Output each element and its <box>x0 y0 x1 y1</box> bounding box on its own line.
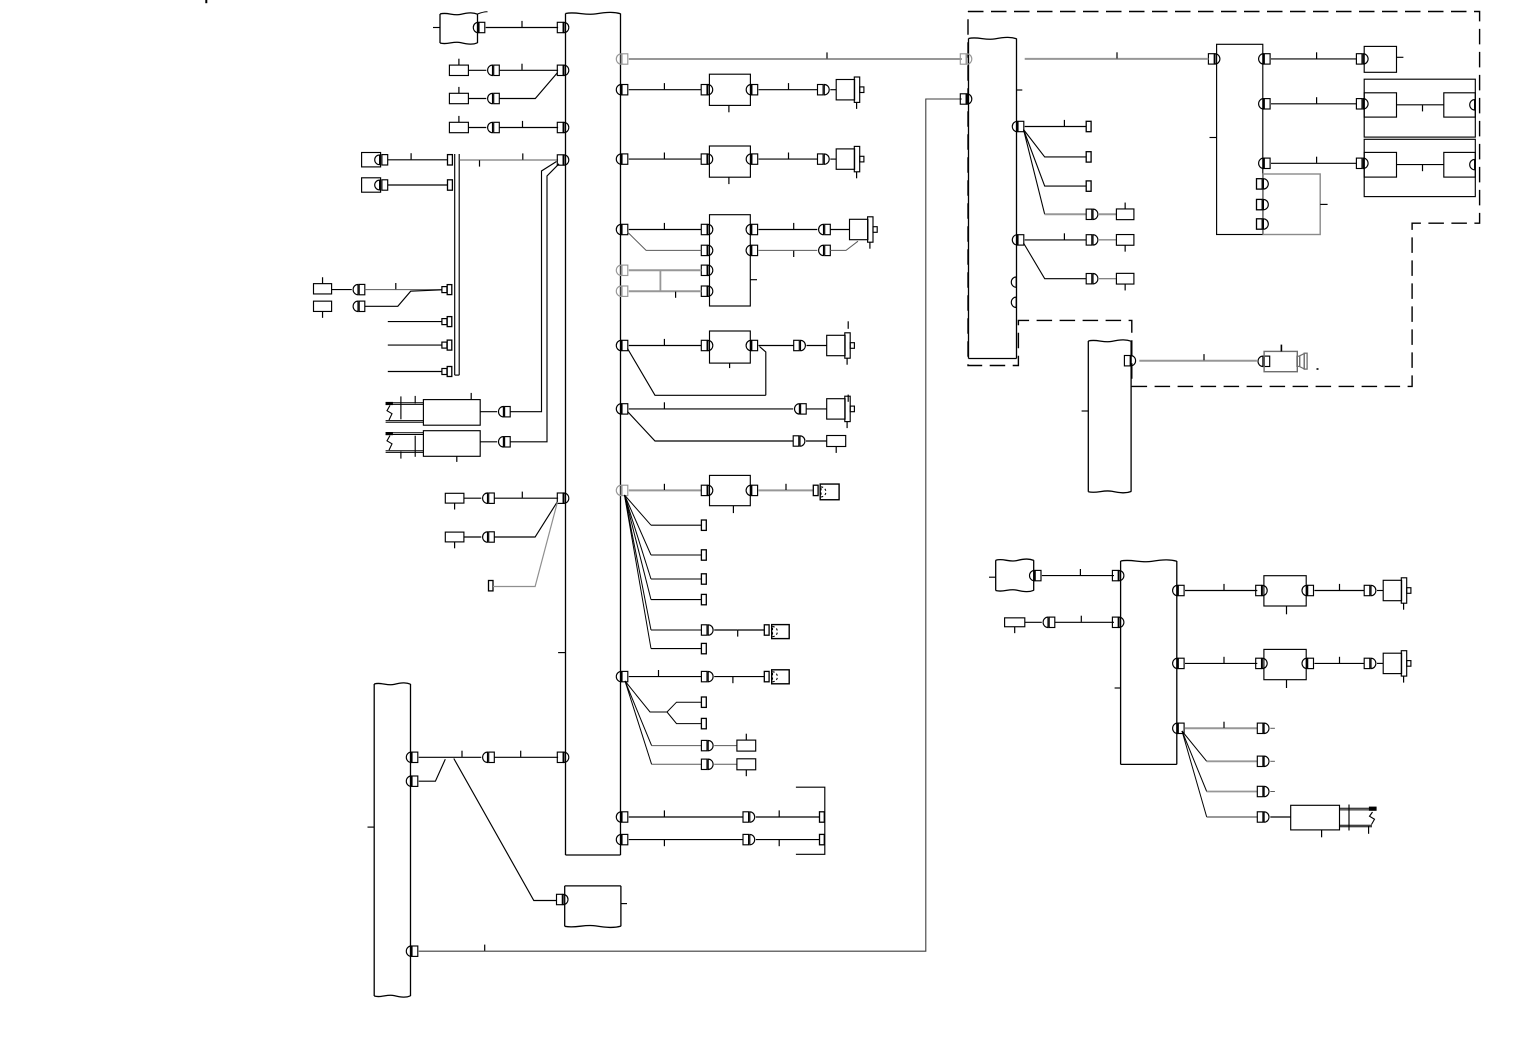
wire fan from FB pin 490 <box>625 495 652 525</box>
wire F fan row 761 (gray) <box>1182 731 1207 761</box>
horn H1 <box>1264 351 1297 371</box>
socket box SB2 <box>772 625 790 639</box>
relay box K1 <box>709 74 750 105</box>
connector joint row 250 load side <box>819 245 824 255</box>
pin FB right edge row 291 <box>622 286 628 296</box>
pin FB right edge row 345 <box>622 340 628 350</box>
wire B3 to socket (gray) <box>759 489 814 491</box>
connector joint row 214 <box>1086 209 1092 219</box>
stub on L1 right <box>1397 56 1404 58</box>
pin fan box right row 590 <box>1308 585 1314 595</box>
pin FB left edge 2 <box>557 65 563 75</box>
wire RU row 58 <box>1271 58 1356 60</box>
pin FB left edge 4 <box>557 155 563 165</box>
connector joint row 409 <box>795 404 800 414</box>
pin B2 right <box>752 340 758 350</box>
pin B3 right <box>752 485 758 495</box>
wire FB row 839.6 <box>629 839 743 841</box>
connector joint row 817 <box>1257 812 1263 822</box>
connector joint row 278 <box>1086 274 1092 284</box>
pin B1 right 229 <box>752 224 758 234</box>
pin B2 left <box>701 340 707 350</box>
wire fan row 648.6 <box>651 648 701 650</box>
connector joint row 537 <box>483 532 488 542</box>
pin on junction strip row 345.1 <box>442 342 447 348</box>
motor M2 <box>836 149 854 169</box>
wire D fan row 214 (gray) <box>1024 130 1045 215</box>
pin busbar D left row59 (gray) <box>960 54 966 64</box>
connector pin row 676 load <box>764 671 769 681</box>
wire FB to relay K1 <box>629 89 701 91</box>
pin on junction strip row 371.5 <box>442 369 447 375</box>
wire row 59 gray <box>629 58 962 60</box>
stray dot <box>1317 368 1319 370</box>
headlamp A2 inner right <box>1444 152 1476 177</box>
wire RU row 103 <box>1271 103 1356 105</box>
motor M3 <box>850 219 868 239</box>
pin busbar F left row 576 <box>1112 570 1118 580</box>
wire stub row 321.6 <box>388 321 442 323</box>
wire F fan row 791 (gray) <box>1182 731 1207 792</box>
headlamp A2 inner left <box>1364 152 1396 177</box>
headlamp assembly A2 outer <box>1364 139 1475 196</box>
socket box SB3 <box>772 670 790 684</box>
wire S5 to junction strip <box>332 289 352 291</box>
wire G pin3 long bottom run to busbar D <box>419 99 962 951</box>
stub on busbar E left edge <box>1082 410 1089 412</box>
component box S3 <box>449 93 468 103</box>
pin relay K left <box>701 85 707 95</box>
component box S8 <box>445 532 464 542</box>
pin on X3 right edge <box>1035 570 1041 580</box>
pin busbar E right row 361 <box>1124 356 1130 366</box>
torn box X1 top-left <box>440 13 478 15</box>
pin fan box left row 663 <box>1256 658 1262 668</box>
wire B1 to motor M3 <box>759 229 818 231</box>
motor M7 <box>1383 653 1401 673</box>
connector joint row 498 <box>483 493 488 503</box>
component box S11 <box>737 759 756 770</box>
wire inside A2 <box>1397 164 1444 166</box>
wire X3 to busbar F <box>1042 575 1114 577</box>
pin B3 left <box>701 485 707 495</box>
connector joint row 590 <box>1364 585 1370 595</box>
wire FB row 676 <box>629 676 702 678</box>
pin-only connector row 579 <box>701 574 706 584</box>
pin busbar D right row 240 <box>1018 235 1024 245</box>
component box S2 <box>449 65 468 75</box>
socket box SB1 <box>820 484 839 500</box>
connector joint HE2 <box>498 437 503 447</box>
wire stub row 345.1 <box>388 344 442 346</box>
stray tick mark <box>205 0 207 3</box>
connector joint HE1 <box>498 407 503 417</box>
pin-only connector row 702 <box>701 697 706 707</box>
pin-only connector row 586 <box>489 581 494 591</box>
pin RU-AB row 183 <box>1257 179 1263 189</box>
wire fanbox to motor row 590 <box>1314 590 1364 592</box>
wire D row 240 <box>1025 239 1087 241</box>
connector joint RU row 59 <box>1356 54 1362 64</box>
wire FB to relay K2 <box>629 158 701 160</box>
motor M5 <box>827 399 845 419</box>
connector joint row 229 load side <box>819 224 824 234</box>
component box S5 <box>314 284 332 294</box>
pin on junction strip row 160 <box>448 155 453 165</box>
pin busbar G right 2 <box>412 776 418 786</box>
connector pin row 630 load <box>764 625 769 635</box>
connector joint row 757 <box>483 752 488 762</box>
stub on RU left edge <box>1210 137 1217 139</box>
wire row 586 diagonal to FB pin 5 <box>493 502 558 587</box>
wire S6 diagonal to row 290 <box>365 290 442 307</box>
wire D fan row 156.9 <box>1024 130 1087 157</box>
pin FB right edge row 229 <box>622 224 628 234</box>
pin FB right edge row 839.6 <box>622 834 628 844</box>
wire relay K to motor <box>759 89 818 91</box>
pin relay K right <box>752 154 758 164</box>
stub on busbar D right edge <box>1017 89 1023 91</box>
pin on X1 right edge <box>479 22 485 32</box>
pin FB right edge row 159.1 <box>622 154 628 164</box>
fan box FB1 <box>1264 576 1306 606</box>
wire fan row 525.2 <box>651 524 701 526</box>
pin RU-AB row 204 <box>1257 199 1263 209</box>
wire S7 to FB pin 5 <box>464 497 481 499</box>
pin FB right edge row 89.7 <box>622 85 628 95</box>
pin-only connector row 126 <box>1086 121 1091 131</box>
connector joint row3 <box>488 93 493 103</box>
pin on junction strip row 290 <box>442 287 447 293</box>
wire FB row 817 <box>629 816 743 818</box>
component box S10 <box>737 740 756 751</box>
wire FB alternate loop to B2 output <box>628 349 766 396</box>
wire D row 126 <box>1025 126 1087 128</box>
wire S15 to busbar F <box>1025 621 1042 623</box>
pin FB right edge row59 (gray) <box>622 54 628 64</box>
connector joint row 663 <box>1364 658 1370 668</box>
wire F row 590 <box>1185 590 1257 592</box>
pin-only connector row 186.1 <box>1086 181 1091 191</box>
pin B1 left 229.5 <box>701 224 707 234</box>
pin busbar D right row 126 <box>1018 121 1024 131</box>
component box S6 <box>314 301 332 311</box>
auxiliary box AB (gray) <box>1263 174 1320 235</box>
pin on X2 left edge <box>557 894 563 904</box>
component box S4 <box>449 122 468 132</box>
connector joint row 159.1 <box>818 154 824 164</box>
busbar E mid right <box>1088 340 1131 342</box>
fan box FB2 <box>1264 649 1306 679</box>
pin FB left edge 5 <box>557 493 563 503</box>
stub on B1 right <box>750 279 757 281</box>
link wire rows 270-291 <box>659 270 661 291</box>
connector joint row2 <box>488 65 493 75</box>
cigarette lighter CL box <box>1291 805 1340 830</box>
pin-only connector row 555 <box>701 550 706 560</box>
wire R2 to junction strip <box>388 184 448 186</box>
relay box R2 <box>362 178 381 192</box>
headlamp A1 inner right <box>1444 93 1476 117</box>
connector joint row 728 <box>1257 723 1263 733</box>
stub on busbar F left edge <box>1115 687 1121 689</box>
wire S4 to FB pin 3 <box>468 127 486 129</box>
wire R1 to junction strip <box>388 159 448 161</box>
pin-only connector row 599.6 <box>701 594 706 604</box>
wire G pin2 merging into row 757 <box>419 759 446 781</box>
wire FB fan to B1 row 250 (gray) <box>628 232 702 250</box>
connector joint row 745 <box>701 740 707 750</box>
pin on junction strip row 321.6 <box>442 319 447 325</box>
wire D fan row 186.1 <box>1024 130 1087 187</box>
connector joint row 290 <box>353 284 358 294</box>
junction strip J left double-line bar <box>454 154 456 375</box>
connector joint row 240 <box>1086 235 1092 245</box>
connector joint row 791 <box>1257 786 1263 796</box>
wire S2 to FB pin 2 <box>468 69 486 71</box>
wire FB to B1 row 270 (gray) <box>629 269 702 271</box>
pin RU left row 59 <box>1208 54 1214 64</box>
connector joint row 89.7 <box>818 85 824 95</box>
torn box X3 <box>996 559 1034 561</box>
wire fan row 745 (gray) <box>625 681 652 746</box>
pin FB right edge row 817 <box>622 812 628 822</box>
headlamp A1 inner left <box>1364 93 1396 117</box>
wire row 757 branch to X2 <box>454 759 557 901</box>
stub on busbar FB left edge <box>558 652 565 654</box>
wire G pin1 to FB pin 6 <box>419 756 482 758</box>
wire B1 row 250 to motor M3 (gray) <box>759 249 818 251</box>
connector joint horn <box>1258 356 1263 366</box>
pin busbar D left row99 <box>960 94 966 104</box>
pin B1 left 270.3 <box>701 265 707 275</box>
component box S9 <box>827 436 846 447</box>
wire X1 to FB pin 1 <box>486 27 558 29</box>
wire fan row 579 <box>651 578 701 580</box>
pin busbar G right 1 <box>412 752 418 762</box>
stub on X1 left <box>433 27 440 29</box>
wire B2 to motor M4 <box>759 345 794 347</box>
headlamp assembly A1 outer <box>1364 79 1475 137</box>
stub on AB right <box>1320 203 1327 205</box>
switch block B2 <box>710 331 751 363</box>
wire S8 diagonal to FB pin 5 <box>464 536 481 538</box>
pin arc inside A2 right <box>1470 159 1475 169</box>
pin arc inside A1 right <box>1470 100 1475 110</box>
wire fan row 764 (gray) <box>625 681 652 764</box>
connector joint row 817 <box>743 812 749 822</box>
pin-only connector row 525.2 <box>701 520 706 530</box>
stub on X2 right <box>621 903 627 905</box>
pin FB right edge row 270 <box>622 265 628 275</box>
stub on busbar G left edge <box>368 826 375 828</box>
wire stub row 371.5 <box>388 371 442 373</box>
switch block B3 <box>710 475 751 505</box>
pin busbar F right row 663 <box>1178 658 1184 668</box>
wire FB to B1 row 291 (gray) <box>629 290 702 292</box>
pin FB right edge row 409 <box>622 404 628 414</box>
busbar D top right <box>969 37 1017 39</box>
wire junction strip to FB pin 4 (gray) <box>459 159 558 161</box>
wire fan row 630 <box>651 629 701 631</box>
wire FB to B1 row 229 <box>629 229 702 231</box>
wire F fan row 817 <box>1182 731 1207 817</box>
stub on X3 left <box>989 576 996 578</box>
wire E to horn (gray) <box>1139 360 1257 362</box>
pin FB right edge row 490 (gray) <box>622 485 628 495</box>
pin-only connector row 817 <box>820 812 825 822</box>
connector joint row 839.6 <box>743 834 749 844</box>
pin relay K left <box>701 154 707 164</box>
wire fanbox to motor row 663 <box>1314 662 1364 664</box>
connector joint row 622 <box>1043 617 1048 627</box>
heater element HE1 <box>423 400 480 426</box>
pin-only connector row 723 <box>701 718 706 728</box>
wire D fan row 278 <box>1024 243 1087 279</box>
pin-only connector row 839.6 <box>820 834 825 844</box>
wire FB row 409 <box>629 408 793 410</box>
wire relay K to motor <box>759 158 818 160</box>
pin RU-AB row 224 <box>1257 219 1263 229</box>
wire HE1 to riser <box>480 411 497 413</box>
component box S15 <box>1005 618 1025 627</box>
relay box K2 <box>709 146 750 177</box>
connector pin row 490 load <box>813 485 818 495</box>
pin on junction strip row 185 <box>448 180 453 190</box>
wire fan row 599.6 <box>651 599 701 601</box>
wire F row 663 <box>1185 662 1257 664</box>
component box S13 <box>1116 235 1134 246</box>
connector joint RU row 163 <box>1356 158 1362 168</box>
pin RU right row 163 <box>1264 158 1270 168</box>
pin FB left edge 6 <box>557 752 563 762</box>
lamp box L1 <box>1364 46 1396 72</box>
wire FB to B3 (gray) <box>629 489 702 491</box>
component box S14 <box>1116 273 1134 284</box>
wire RU row 163 <box>1271 162 1356 164</box>
connector joint row 345 load side <box>794 340 800 350</box>
busbar G bottom-left <box>374 683 410 685</box>
pin RU right row 58 <box>1264 54 1270 64</box>
pin FB left edge 1 <box>557 22 563 32</box>
pin busbar F right row 590 <box>1178 585 1184 595</box>
wire busbar D to RU (gray) <box>1025 58 1209 60</box>
pin B1 right 250 <box>752 245 758 255</box>
pin busbar F left row 622 <box>1112 617 1118 627</box>
relay box R1 <box>362 153 381 167</box>
wire riser 1 to FB pin 4 <box>510 162 556 412</box>
wire F row 728 (gray) <box>1185 727 1257 729</box>
switch block B1 <box>710 215 751 306</box>
cigarette lighter element <box>1340 807 1373 809</box>
motor M4 <box>827 335 845 355</box>
pin B1 left 291.2 <box>701 286 707 296</box>
pin-only connector row 648.6 <box>701 643 706 653</box>
pin FB right edge row 676 <box>622 671 628 681</box>
wire HE2 to riser <box>480 441 497 443</box>
wire S3 diagonal to FB pin 2 <box>468 98 486 100</box>
connector joint row 441 <box>793 436 799 446</box>
torn box X2 below FB <box>565 885 621 887</box>
pin busbar G right 3 <box>412 946 418 956</box>
wire inside A1 <box>1397 104 1444 106</box>
wire FB fan row 441 <box>628 412 794 442</box>
pin FB left edge 3 <box>557 122 563 132</box>
pin-only connector row 156.9 <box>1086 152 1091 162</box>
connector joint RU row 104 <box>1356 99 1362 109</box>
component box S7 <box>445 493 464 503</box>
bracket connector face <box>796 787 825 854</box>
connector joint row 306 <box>353 301 358 311</box>
pin relay K right <box>752 85 758 95</box>
connector joint row 630 <box>701 625 707 635</box>
heater element HE2 <box>423 431 480 457</box>
pin fan box right row 663 <box>1308 658 1314 668</box>
connector joint row 764 <box>701 759 707 769</box>
dashed enclosure boundary <box>968 12 1480 387</box>
unused pin arc busbar D 302 <box>1011 297 1016 307</box>
busbar F lower right <box>1121 560 1177 562</box>
pin fan box left row 590 <box>1256 585 1262 595</box>
unused pin arc busbar D 282 <box>1011 277 1016 287</box>
wire fan row 555 <box>651 554 701 556</box>
wire FB to B2 <box>629 345 702 347</box>
wire fork rows 702/723 <box>625 681 667 712</box>
connector joint row4 <box>488 122 493 132</box>
relay unit RU box <box>1217 44 1263 234</box>
component box S12 <box>1116 209 1134 220</box>
connector joint row 676 <box>701 671 707 681</box>
motor M1 <box>836 80 854 100</box>
pin RU right row 103 <box>1264 99 1270 109</box>
busbar FB central fuse box <box>566 12 621 14</box>
pin B1 left 250.4 <box>701 245 707 255</box>
wire riser 2 to FB pin 4 <box>510 164 559 442</box>
connector joint row 761 <box>1257 756 1263 766</box>
pin busbar F right row 728 <box>1178 723 1184 733</box>
motor M6 <box>1383 580 1401 600</box>
